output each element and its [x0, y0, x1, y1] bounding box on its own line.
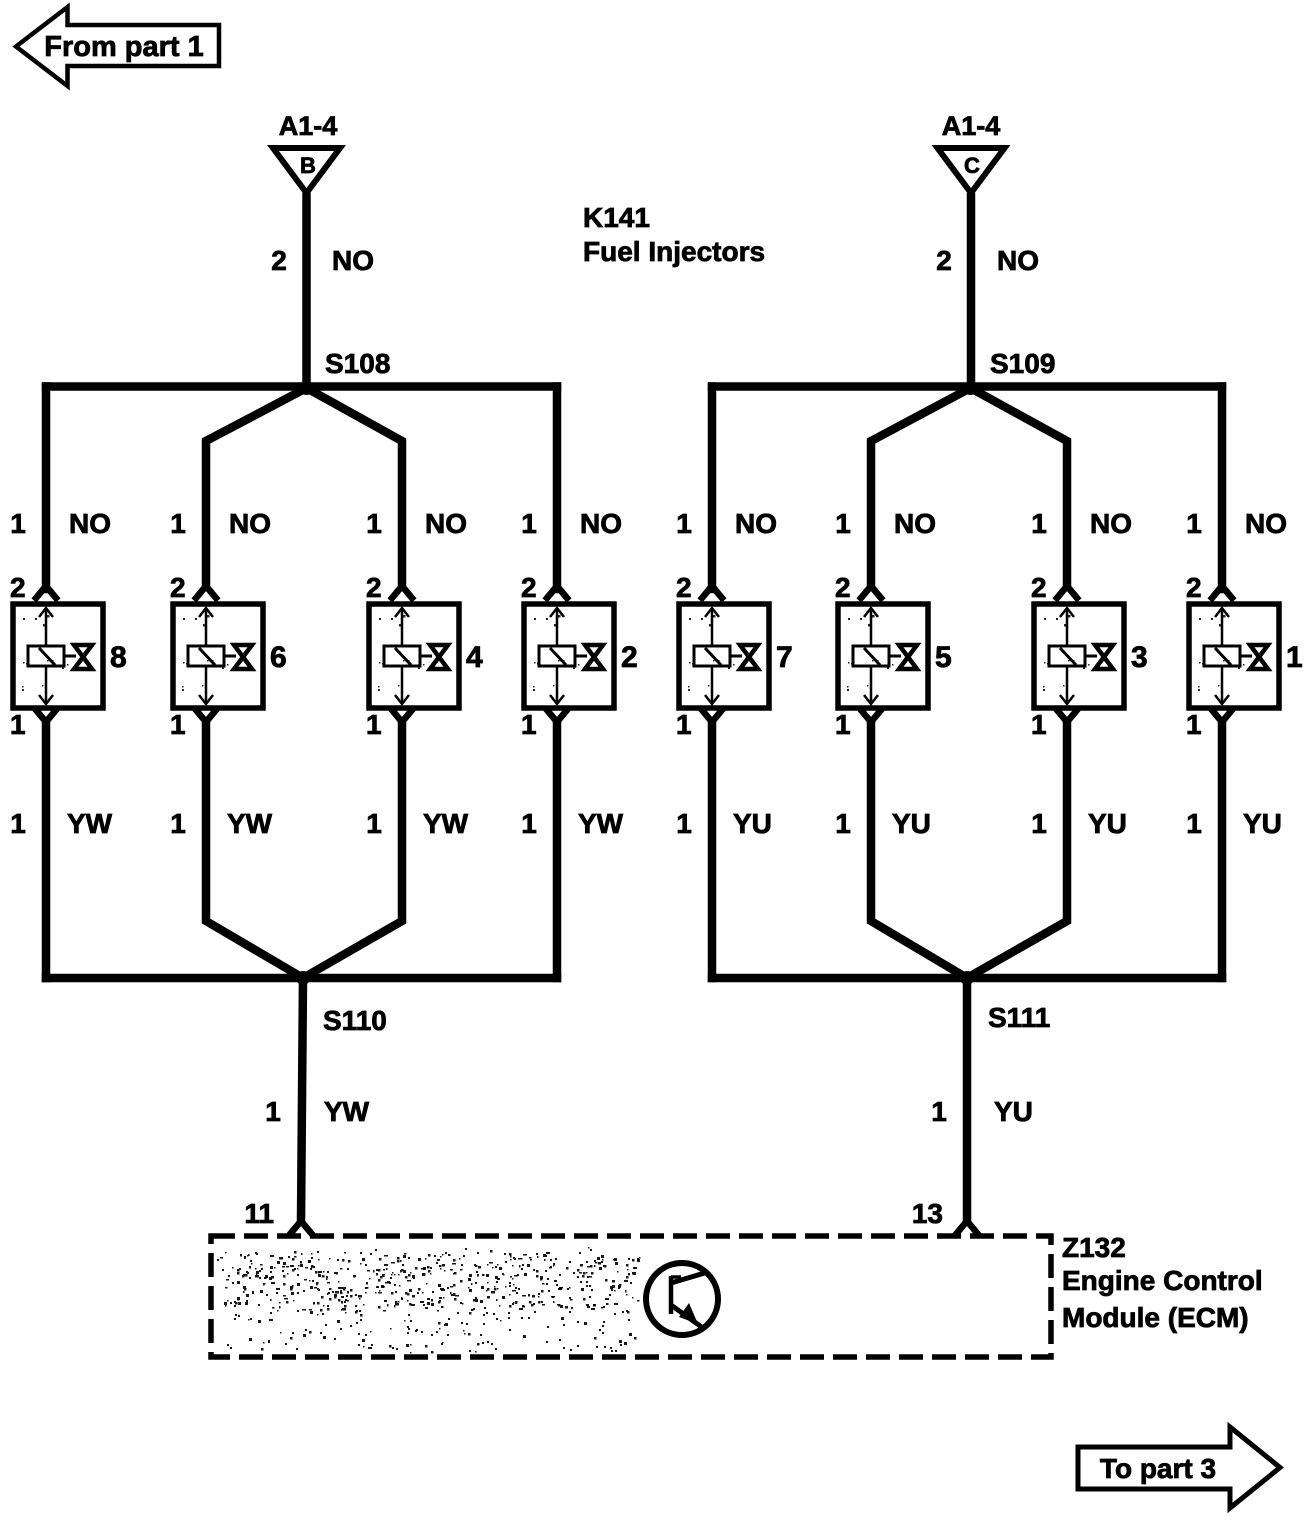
injector 8 pin 1 connector fork [36, 710, 56, 722]
bottom rail left group [46, 974, 557, 983]
fuel injector 6 (K141) [173, 604, 263, 708]
svg-text:YW: YW [423, 808, 469, 839]
svg-text:1: 1 [366, 709, 382, 740]
svg-text:NO: NO [425, 508, 467, 539]
svg-text:2: 2 [621, 641, 638, 674]
fuel injector 8 (K141) [13, 604, 103, 708]
svg-text:YU: YU [1088, 808, 1127, 839]
wire injector 1 to S111 [1218, 722, 1227, 978]
svg-text:S111: S111 [988, 1002, 1050, 1033]
connector triangle C [938, 148, 1005, 193]
ECM Z132 dashed box [211, 1236, 1051, 1357]
svg-text:1: 1 [10, 808, 26, 839]
injector 2 pin 1 connector fork [547, 710, 567, 722]
svg-text:2: 2 [936, 245, 952, 276]
wire B to S108 [302, 193, 311, 387]
injector 5 pin 2 connector fork [861, 586, 881, 598]
svg-text:5: 5 [935, 641, 952, 674]
svg-text:S109: S109 [990, 348, 1055, 379]
svg-text:Module (ECM): Module (ECM) [1062, 1302, 1249, 1333]
svg-text:NO: NO [69, 508, 111, 539]
injector 4 pin 1 connector fork [392, 710, 412, 722]
svg-text:1: 1 [366, 508, 382, 539]
wire injector 5 to S111 [871, 722, 967, 978]
wire S110 to ECM pin 11 [301, 978, 303, 1221]
svg-text:1: 1 [676, 808, 692, 839]
wire S109 to injector 3 [971, 388, 1068, 589]
fuel injector 4 (K141) [369, 604, 459, 708]
wire S108 to injector 6 [206, 388, 307, 589]
svg-text:NO: NO [1090, 508, 1132, 539]
svg-text:YU: YU [1243, 808, 1282, 839]
svg-text:NO: NO [997, 245, 1039, 276]
svg-text:1: 1 [170, 508, 186, 539]
ECM internal stipple shading [217, 1247, 641, 1354]
svg-text:1: 1 [10, 709, 26, 740]
injector 2 pin 2 connector fork [547, 586, 567, 598]
svg-text:NO: NO [735, 508, 777, 539]
svg-text:A1-4: A1-4 [279, 111, 338, 141]
svg-text:8: 8 [110, 641, 127, 674]
svg-text:11: 11 [244, 1198, 274, 1229]
svg-text:1: 1 [366, 808, 382, 839]
fuel injector 5 (K141) [838, 604, 928, 708]
wire S109 to injector 7 [708, 387, 717, 590]
injector 5 pin 1 connector fork [861, 710, 881, 722]
splice S109 node [964, 381, 978, 395]
svg-text:2: 2 [521, 572, 537, 603]
wire C to S109 [967, 193, 976, 387]
wire injector 4 to S110 [303, 722, 402, 978]
svg-text:1: 1 [170, 808, 186, 839]
injector 3 pin 2 connector fork [1057, 586, 1077, 598]
splice S108 node [300, 381, 314, 395]
fuel injector 1 (K141) [1189, 604, 1279, 708]
svg-text:YU: YU [892, 808, 931, 839]
svg-text:1: 1 [835, 508, 851, 539]
wire injector 7 to S111 [708, 722, 717, 978]
injector 1 pin 2 connector fork [1212, 586, 1232, 598]
splice S110 node [296, 971, 310, 985]
svg-text:1: 1 [10, 508, 26, 539]
svg-text:1: 1 [170, 709, 186, 740]
wire S109 to injector 5 [871, 388, 971, 589]
svg-text:13: 13 [912, 1198, 943, 1229]
svg-text:Fuel Injectors: Fuel Injectors [583, 236, 765, 267]
injector 7 pin 2 connector fork [702, 586, 722, 598]
svg-text:6: 6 [270, 641, 287, 674]
svg-text:YW: YW [227, 808, 273, 839]
svg-text:3: 3 [1131, 641, 1148, 674]
svg-text:A1-4: A1-4 [942, 111, 1001, 141]
wire injector 8 to S110 [42, 722, 51, 978]
svg-text:1: 1 [676, 709, 692, 740]
svg-text:S110: S110 [323, 1005, 387, 1036]
svg-text:1: 1 [1186, 709, 1202, 740]
svg-text:YU: YU [994, 1096, 1033, 1127]
svg-text:1: 1 [1031, 709, 1047, 740]
ECM pin 13 connector fork [957, 1221, 977, 1233]
svg-text:2: 2 [1186, 572, 1202, 603]
svg-text:1: 1 [521, 808, 537, 839]
ECM pin 11 connector fork [291, 1221, 311, 1233]
svg-text:2: 2 [1031, 572, 1047, 603]
svg-text:YW: YW [67, 808, 113, 839]
svg-text:Engine Control: Engine Control [1062, 1265, 1263, 1296]
svg-text:NO: NO [229, 508, 271, 539]
svg-text:1: 1 [835, 808, 851, 839]
svg-text:Z132: Z132 [1062, 1232, 1126, 1263]
fuel injector 2 (K141) [524, 604, 614, 708]
wire S108 to injector 2 [553, 387, 562, 590]
svg-text:7: 7 [776, 641, 793, 674]
wire injector 6 to S110 [206, 722, 303, 978]
svg-text:1: 1 [521, 508, 537, 539]
injector 7 pin 1 connector fork [702, 710, 722, 722]
svg-text:2: 2 [835, 572, 851, 603]
svg-text:2: 2 [271, 245, 287, 276]
svg-text:1: 1 [931, 1096, 947, 1127]
svg-text:1: 1 [1031, 808, 1047, 839]
injector 6 pin 2 connector fork [196, 586, 216, 598]
svg-text:1: 1 [835, 709, 851, 740]
injector 8 pin 2 connector fork [36, 586, 56, 598]
connector triangle B [273, 148, 340, 193]
injector 1 pin 1 connector fork [1212, 710, 1232, 722]
svg-text:2: 2 [10, 572, 26, 603]
svg-text:To part 3: To part 3 [1100, 1453, 1216, 1484]
svg-text:K141: K141 [583, 202, 650, 233]
svg-text:4: 4 [466, 641, 483, 674]
top rail left group [46, 382, 557, 391]
svg-text:1: 1 [521, 709, 537, 740]
wire injector 2 to S110 [553, 722, 562, 978]
svg-text:1: 1 [1186, 808, 1202, 839]
svg-text:YW: YW [578, 808, 624, 839]
svg-text:YW: YW [324, 1096, 370, 1127]
svg-text:1: 1 [265, 1096, 281, 1127]
svg-text:2: 2 [366, 572, 382, 603]
injector 6 pin 1 connector fork [196, 710, 216, 722]
From part 1 arrow [16, 7, 219, 86]
svg-text:C: C [964, 153, 980, 178]
svg-text:1: 1 [1186, 508, 1202, 539]
wire S108 to injector 8 [42, 387, 51, 590]
svg-text:NO: NO [580, 508, 622, 539]
fuel injector 3 (K141) [1034, 604, 1124, 708]
svg-text:2: 2 [170, 572, 186, 603]
svg-text:NO: NO [1245, 508, 1287, 539]
svg-text:From part 1: From part 1 [44, 31, 204, 63]
To part 3 arrow [1078, 1427, 1280, 1508]
svg-text:S108: S108 [325, 348, 390, 379]
svg-text:B: B [300, 153, 316, 178]
wire S111 to ECM pin 13 [963, 978, 972, 1221]
svg-text:1: 1 [1031, 508, 1047, 539]
svg-text:NO: NO [894, 508, 936, 539]
injector 4 pin 2 connector fork [392, 586, 412, 598]
svg-text:1: 1 [1286, 641, 1303, 674]
svg-text:1: 1 [676, 508, 692, 539]
wire S109 to injector 1 [1218, 387, 1227, 590]
splice S111 node [960, 971, 974, 985]
wire injector 3 to S111 [967, 722, 1067, 978]
fuel injector 7 (K141) [679, 604, 769, 708]
bottom rail right group [712, 974, 1222, 983]
svg-text:NO: NO [332, 245, 374, 276]
svg-text:2: 2 [676, 572, 692, 603]
injector 3 pin 1 connector fork [1057, 710, 1077, 722]
wire S108 to injector 4 [307, 388, 403, 589]
svg-text:YU: YU [733, 808, 772, 839]
top rail right group [712, 382, 1222, 391]
ECM driver transistor icon [646, 1263, 718, 1335]
